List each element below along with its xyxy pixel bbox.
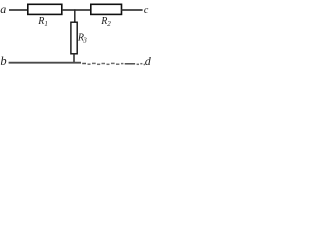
resistor R3 [71,22,77,54]
wire R3 to bottom wire [73,54,75,63]
svg-text:R: R [37,16,44,27]
svg-text:2: 2 [107,20,111,28]
svg-text:a: a [0,2,6,16]
svg-text:1: 1 [44,20,48,28]
svg-text:R: R [100,16,107,27]
label R2 [100,16,111,28]
label R3 [77,32,87,44]
label R1 [37,16,48,28]
svg-text:3: 3 [82,36,87,44]
node c [144,5,149,16]
bottom wire b to junction [9,62,81,64]
resistor R1 [28,4,62,14]
svg-text:d: d [145,54,151,68]
wire R1 to R2 [62,9,91,11]
svg-text:b: b [0,54,6,68]
node a [0,2,6,16]
wire junction down to R3 [74,9,76,22]
node d [145,54,152,68]
dashed wire junction to d [82,63,145,64]
node b [0,54,6,68]
wire a to R1 [9,9,28,11]
wire R2 to c [121,9,142,11]
resistor R2 [91,4,122,14]
svg-text:c: c [144,5,149,16]
